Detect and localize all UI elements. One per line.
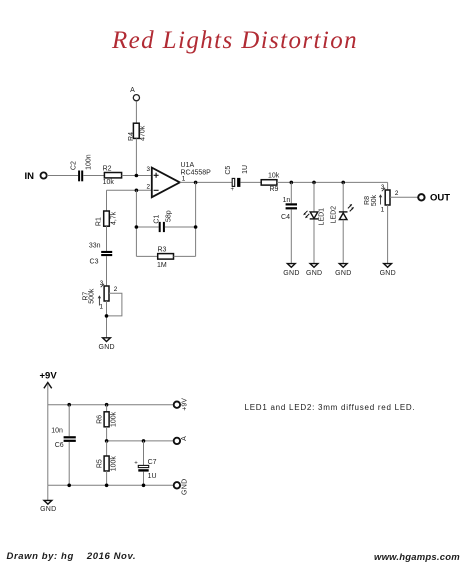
node A terminal [130, 87, 139, 101]
svg-text:C1: C1 [153, 215, 160, 224]
svg-text:R8: R8 [364, 196, 371, 205]
svg-text:LED1: LED1 [318, 208, 325, 226]
node C4 junction [290, 181, 294, 185]
svg-text:C4: C4 [281, 214, 290, 221]
node C7 top [142, 439, 146, 443]
node output junction [194, 181, 198, 185]
svg-text:3: 3 [146, 166, 150, 173]
svg-text:Drawn by: hg 2016 Nov.: Drawn by: hg 2016 Nov. [7, 551, 137, 562]
svg-text:1U: 1U [148, 473, 157, 480]
svg-text:+9V: +9V [40, 371, 58, 382]
node C6 bottom [67, 484, 71, 488]
ground power section [40, 500, 56, 513]
svg-text:LED2: LED2 [331, 206, 338, 224]
ground LED1 [306, 264, 322, 277]
svg-text:GND: GND [98, 344, 114, 351]
svg-text:A: A [181, 436, 188, 441]
svg-text:+9V: +9V [182, 398, 189, 411]
svg-text:2: 2 [395, 190, 399, 197]
wire C4 branch [290, 182, 292, 203]
capacitor C2 100n [70, 154, 92, 181]
svg-text:GND: GND [335, 270, 351, 277]
wire A to R4 [135, 101, 137, 123]
svg-text:2: 2 [114, 286, 118, 293]
svg-text:10k: 10k [103, 179, 115, 186]
svg-text:GND: GND [380, 270, 396, 277]
wire rail corner to R8 [387, 182, 389, 190]
wire +9V down [47, 384, 49, 485]
node LED2 junction [341, 181, 345, 185]
svg-text:C7: C7 [148, 459, 157, 466]
ground C4 [283, 264, 299, 277]
svg-text:U1A: U1A [181, 162, 195, 169]
node C7 bottom [142, 484, 146, 488]
svg-text:50k: 50k [371, 194, 378, 206]
node R7 wiper junction [105, 314, 109, 318]
wire R8 to GND [387, 205, 389, 264]
node junction pin2 feedback [135, 189, 139, 193]
svg-text:R1: R1 [96, 217, 103, 226]
OUT terminal [418, 193, 450, 204]
wire R2 to op-amp pin3 [122, 175, 152, 177]
node C1 right junction [194, 225, 198, 229]
svg-text:Red Lights Distortion: Red Lights Distortion [111, 27, 358, 54]
svg-text:1: 1 [99, 304, 103, 311]
svg-text:R5: R5 [97, 459, 104, 468]
resistor R4 470k [128, 123, 147, 141]
potentiometer R7 500k [83, 280, 122, 316]
wire C1 right [165, 226, 196, 228]
node R5 bottom [105, 484, 109, 488]
wire C6 branch [68, 405, 70, 437]
LED1 [303, 208, 325, 226]
svg-text:10k: 10k [268, 172, 280, 179]
node C6 top [67, 403, 71, 407]
svg-text:4,7k: 4,7k [110, 211, 117, 225]
wire C6 to rail [68, 442, 70, 485]
wire C4 to GND [290, 209, 292, 263]
svg-text:2: 2 [146, 184, 150, 191]
svg-text:1: 1 [381, 207, 385, 214]
wire R9 to R8 rail [277, 181, 388, 183]
+9V supply symbol [40, 371, 58, 389]
wire C2 to R2 [83, 175, 104, 177]
terminal GND [174, 479, 189, 495]
ground main [98, 338, 114, 351]
svg-text:58p: 58p [166, 210, 173, 222]
ground LED2 [335, 264, 351, 277]
svg-text:R9: R9 [270, 186, 279, 193]
wire LED1 branch [313, 182, 315, 212]
wire LED2 branch [342, 182, 344, 212]
svg-text:100k: 100k [111, 456, 118, 472]
svg-text:500k: 500k [89, 288, 96, 304]
resistor R9 10k [261, 172, 280, 193]
svg-text:100n: 100n [86, 154, 93, 170]
svg-text:C3: C3 [90, 259, 99, 266]
svg-text:+: + [134, 460, 138, 466]
ground R8 [380, 264, 396, 277]
svg-text:GND: GND [40, 506, 56, 513]
capacitor C1 58p [153, 210, 172, 232]
resistor R3 1M [157, 246, 174, 268]
resistor R2 10k [103, 165, 122, 186]
terminal A [174, 436, 188, 444]
wire feedback vertical left [135, 190, 137, 256]
svg-text:R6: R6 [97, 415, 104, 424]
svg-text:C6: C6 [55, 442, 64, 449]
svg-text:R3: R3 [158, 246, 167, 253]
resistor R5 100k [97, 441, 118, 485]
potentiometer R8 50k [364, 184, 418, 214]
node junction pin3 [135, 174, 139, 178]
wire R7 to GND [106, 301, 108, 338]
svg-text:GND: GND [306, 270, 322, 277]
svg-text:R4: R4 [128, 132, 135, 141]
wire R4 to node 3 [135, 138, 137, 175]
wire C1 left [136, 226, 158, 228]
svg-text:A: A [130, 87, 135, 94]
wire R3 left [136, 255, 157, 257]
svg-text:GND: GND [182, 479, 189, 495]
svg-text:OUT: OUT [430, 193, 450, 204]
capacitor C7 1U polarized [134, 441, 156, 485]
node LED1 junction [312, 181, 316, 185]
wire C3 to R7 [106, 256, 108, 286]
svg-text:R2: R2 [103, 165, 112, 172]
wire feedback vertical right [195, 182, 197, 256]
svg-text:IN: IN [25, 171, 35, 182]
svg-text:1M: 1M [157, 262, 167, 269]
node C1 left junction [135, 225, 139, 229]
LED2 [331, 204, 354, 224]
wire R3 right [174, 255, 196, 257]
capacitor C6 10n [51, 427, 76, 449]
ground rail bottom [48, 484, 174, 486]
wire IN to C2 [47, 175, 78, 177]
capacitor C5 1U polarized [225, 165, 249, 193]
wire LED1 to GND [313, 220, 315, 264]
svg-text:C5: C5 [225, 166, 232, 175]
wire LED2 to GND [342, 220, 344, 264]
wire R1 to C3 [106, 226, 108, 251]
op-amp U1A RC4558P [152, 162, 211, 197]
svg-text:1: 1 [182, 176, 186, 183]
svg-text:www.hgamps.com: www.hgamps.com [374, 552, 460, 563]
node R6 top [105, 403, 109, 407]
resistor R6 100k [97, 405, 118, 441]
+9V rail [48, 404, 174, 406]
svg-text:1n: 1n [283, 197, 291, 204]
wire pin2 to R1 [107, 189, 152, 191]
capacitor C3 33n [89, 243, 112, 266]
svg-text:C2: C2 [70, 161, 77, 170]
capacitor C4 1n [281, 197, 297, 221]
svg-text:10n: 10n [51, 427, 63, 434]
wire to ground symbol bottom left [47, 485, 49, 500]
svg-text:100k: 100k [111, 411, 118, 427]
IN terminal [25, 171, 47, 182]
svg-text:+: + [231, 187, 235, 193]
wire op-amp out to C5 [180, 181, 232, 183]
resistor R1 4,7k [96, 211, 118, 226]
svg-text:GND: GND [283, 270, 299, 277]
wire pin2 node down to R1 [106, 190, 108, 211]
node A rail [107, 440, 174, 442]
svg-text:33n: 33n [89, 243, 101, 250]
svg-text:1U: 1U [242, 165, 249, 174]
svg-text:LED1 and LED2: 3mm diffused re: LED1 and LED2: 3mm diffused red LED. [245, 403, 416, 412]
terminal +9V [174, 398, 189, 411]
svg-text:470k: 470k [140, 125, 147, 141]
wire C5 to R9 [240, 181, 261, 183]
